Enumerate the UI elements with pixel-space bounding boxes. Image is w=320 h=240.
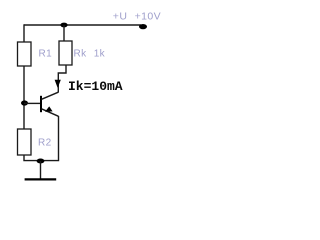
transistor Q1 emitter lead [42,109,59,117]
resistor R2 [18,129,32,155]
wire left rail top segment to R1 [23,24,25,42]
current arrow Ik on collector wire [55,80,61,88]
wire emitter down segment [41,116,59,161]
transistor Q1 emitter arrow (points toward base) [45,106,53,111]
node junction of Rk branch on top rail [60,23,67,28]
svg-text:+U +10V: +U +10V [113,11,161,23]
node +U terminal dot [139,24,147,29]
wire left rail bottom segment from R2 to bottom node [24,155,41,161]
wire base lead [24,102,40,104]
svg-text:Ik=10mA: Ik=10mA [68,79,123,94]
transistor Q1 base bar [40,96,42,112]
node bottom junction dot [37,159,45,164]
wire top rail from left corner to +U terminal [24,24,141,26]
svg-text:Rk 1k: Rk 1k [74,49,106,60]
resistor R1 [18,42,32,66]
wire Rk branch drop from top rail [63,25,65,41]
resistor Rk [59,41,72,65]
svg-text:R2: R2 [38,138,52,149]
wire collector feed with jog from Rk to transistor [58,65,66,93]
transistor Q1 collector lead [42,92,59,99]
wire ground stem [40,161,42,179]
ground [25,178,57,180]
node base junction dot [21,100,28,105]
svg-text:R1: R1 [39,49,53,60]
wire left rail between R1 and R2 [23,66,25,129]
